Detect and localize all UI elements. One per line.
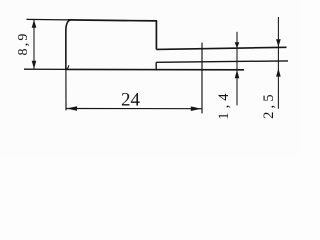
svg-text:24: 24 [121,90,141,111]
wire: bottom-left curl hook [66,65,69,69]
wire: bottom extension line of dim 8,9 [24,68,66,70]
svg-text:1,4: 1,4 [216,89,232,119]
dimension 24 left arrowhead [66,106,77,111]
dimension 2,5 top arrowhead [276,39,281,47]
dimension 8,9 top arrowhead [32,20,37,28]
dimension 8,9 bottom arrowhead [32,61,37,69]
dimension 1,4 bottom arrowhead [235,70,240,78]
wire: left extension line of dim 24 [65,69,67,110]
dimension 1,4 top arrowhead [235,42,240,48]
dimension 2,5 shaft [277,17,279,109]
wire: part left curved edge [66,20,71,70]
dimension 8,9 shaft [33,20,35,69]
wire: blade middle notch vertical [155,62,157,70]
dimension 2,5 bottom arrowhead [276,68,281,76]
wire: top extension line of dim 8,9 [27,18,69,21]
wire: part right step vertical edge [155,20,157,49]
dimension 1,4 shaft [236,32,238,106]
svg-text:2,5: 2,5 [261,91,277,119]
wire: right extension line of dim 24 [201,43,203,114]
wire: blade top edge [156,47,286,49]
wire: part top edge [68,20,157,21]
svg-text:8,9: 8,9 [16,31,31,55]
wire: blade middle edge [156,61,288,62]
wire: part bottom edge [66,68,244,70]
dimension 24 right arrowhead [191,106,202,111]
dimension 24 line [66,108,202,110]
